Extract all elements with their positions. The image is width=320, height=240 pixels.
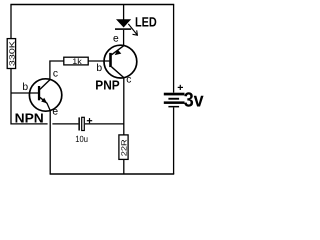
battery plates: [164, 93, 185, 96]
wire 22R to bottom rail: [123, 159, 125, 174]
wire left rail upper: [10, 5, 12, 40]
wire LED stem from top rail: [123, 5, 125, 20]
wire cap left lead: [52, 123, 78, 125]
wire bottom rail: [50, 173, 175, 175]
svg-text:LED: LED: [135, 15, 157, 30]
svg-text:c: c: [126, 74, 131, 85]
transistor Q2 PNP: [95, 34, 137, 93]
svg-text:22R: 22R: [119, 139, 128, 157]
LED D1: [115, 15, 157, 36]
svg-text:10u: 10u: [75, 134, 88, 144]
svg-text:NPN: NPN: [15, 111, 44, 126]
battery BT1 3v: [164, 85, 204, 112]
svg-text:330K: 330K: [7, 41, 16, 66]
wire top rail: [10, 4, 174, 6]
capacitor C1 10u: [75, 117, 92, 144]
svg-text:e: e: [113, 34, 119, 45]
wire NPN base lead: [11, 92, 38, 94]
LED light arrow: [128, 24, 137, 35]
battery plus mark: [178, 86, 183, 88]
transistor Q1 NPN: [15, 68, 62, 125]
resistor R2 1k: [64, 57, 88, 66]
svg-text:3v: 3v: [184, 90, 205, 112]
polarity plus mark (C1): [87, 120, 92, 122]
wire LED to PNP emitter: [123, 30, 125, 46]
wire cap right lead: [85, 123, 124, 125]
resistor R1 330K: [7, 39, 16, 69]
wire right rail upper: [173, 5, 175, 93]
wire left rail lower: [11, 69, 48, 124]
svg-text:PNP: PNP: [95, 77, 120, 92]
svg-text:1k: 1k: [72, 57, 83, 66]
wire 1k to PNP base: [88, 60, 109, 62]
wire NPN collector riser: [50, 61, 64, 80]
wire NPN emitter drop: [49, 111, 51, 174]
svg-text:b: b: [96, 63, 102, 74]
wire PNP collector drop: [123, 78, 125, 135]
svg-text:b: b: [22, 82, 28, 93]
svg-text:c: c: [53, 68, 58, 79]
resistor R3 22R: [119, 135, 128, 160]
wire right rail lower: [173, 107, 175, 174]
svg-text:e: e: [52, 107, 58, 118]
